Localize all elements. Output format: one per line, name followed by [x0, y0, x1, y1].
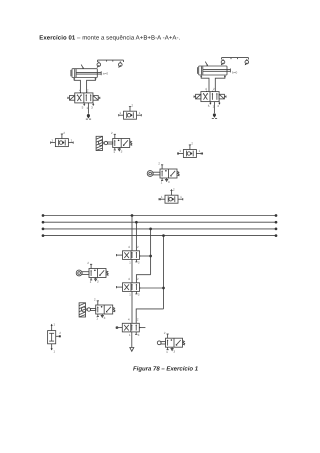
drop wire bus3 to valve C1 pilot and valve C2 port 2 [136, 228, 152, 283]
limit flag b0 [221, 59, 225, 65]
pilot wire valve C2 [140, 287, 164, 289]
bus line 4 [42, 234, 278, 237]
distance rule for cylinder A [98, 60, 124, 62]
svg-text:Exercício 01 – monte a sequênc: Exercício 01 – monte a sequência A+B+B-A… [39, 34, 180, 41]
compressed air source 0Z2 [212, 113, 217, 118]
limit flag a0 [97, 61, 101, 67]
svg-text:a=0: a=0 [103, 72, 109, 76]
shuttle valve S0 [119, 103, 142, 119]
5/2 valve V2 (cylinder B) [194, 87, 226, 108]
wire valve C2 port 1 to valve C3 port 4 [131, 291, 133, 323]
svg-text:1: 1 [53, 350, 55, 354]
position marker arrow cylinder B [205, 62, 208, 66]
wire valve V1 port 1 to source [87, 103, 89, 114]
cylinder A [71, 69, 108, 78]
5/2 valve V1 (cylinder A) [68, 89, 100, 110]
wire valve C3 port 1 to exhaust [130, 332, 134, 351]
bus line 3 [42, 228, 278, 231]
cylinder B [198, 66, 238, 75]
compressed air source 0Z1 [86, 114, 91, 119]
svg-text:b=0: b=0 [232, 70, 238, 74]
wire cylinder B cap end to valve port 4 [201, 75, 209, 92]
chain valve C3 [116, 317, 139, 337]
wire cylinder A rod end to valve port 2 [87, 78, 96, 93]
pilot wire valve C1 [140, 255, 151, 257]
wire valve V2 port 1 to source [213, 102, 215, 114]
svg-text:1: 1 [53, 322, 55, 326]
roller limit valve E [157, 331, 185, 354]
svg-text:2: 2 [59, 331, 61, 335]
distance rule for cylinder B [222, 58, 249, 60]
roller limit valve C [76, 261, 108, 284]
drop wire bus2 to valve C1 port 2 [135, 221, 138, 251]
roller limit valve B [147, 162, 179, 185]
limit flag a1 [118, 61, 122, 67]
limit flag b1 [245, 59, 249, 65]
wire cylinder A cap end to valve port 4 [74, 78, 80, 93]
chain valve C2 [117, 277, 140, 297]
roller limit valve A (wall type) [96, 131, 132, 154]
bus line 2 [42, 221, 278, 224]
wire cylinder B rod end to valve port 2 [215, 75, 225, 92]
quick exhaust / timer component [48, 322, 62, 353]
shuttle valve S3 [159, 187, 183, 203]
drop wire bus1 to valve C1 port 4 [131, 214, 134, 251]
position marker arrow cylinder A [81, 65, 84, 69]
drop wire bus4 to valve C2 pilot and valve C3 port 2 [136, 234, 165, 323]
roller limit valve D (wall type) [79, 298, 115, 321]
bus line 1 [42, 214, 278, 217]
pilot stub valve C3 [116, 327, 145, 329]
shuttle valve S1 [51, 131, 74, 147]
wire valve C1 port 1 to valve C2 port 4 [131, 259, 133, 282]
shuttle valve S2 [178, 142, 203, 158]
svg-text:Figura 78 – Exercício 1: Figura 78 – Exercício 1 [133, 366, 199, 373]
chain valve C1 [117, 245, 140, 265]
